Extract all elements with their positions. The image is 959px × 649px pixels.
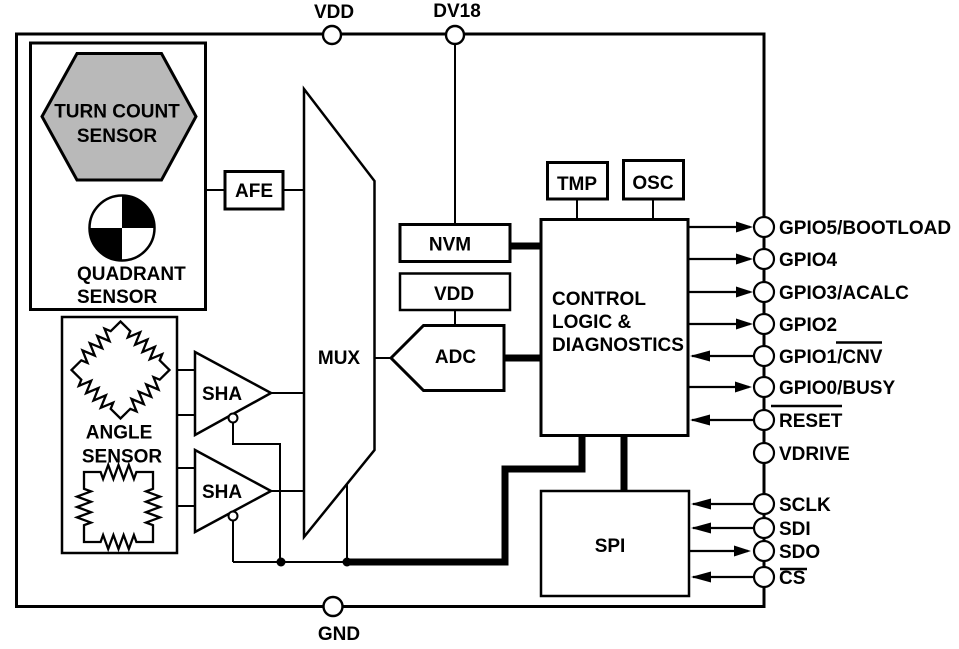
pin GPIO3/ACALC bbox=[754, 282, 774, 302]
svg-text:QUADRANT: QUADRANT bbox=[77, 264, 186, 285]
angle sensor box bbox=[62, 317, 177, 553]
chopper bus horizontal bbox=[233, 561, 347, 563]
SPI box U-SPI bbox=[541, 491, 689, 596]
svg-text:CS: CS bbox=[779, 568, 805, 589]
NVM box bbox=[400, 225, 510, 262]
wire MUX tap to bottom bus bbox=[346, 484, 348, 562]
wire VDD to ADC bbox=[454, 310, 456, 326]
turn count sensor hexagon bbox=[42, 54, 196, 181]
wire DV18 to NVM bbox=[454, 44, 456, 224]
pin SDI bbox=[754, 518, 774, 538]
pin RESET bbox=[754, 410, 774, 430]
ADC converter bbox=[391, 326, 504, 391]
svg-text:GPIO4: GPIO4 bbox=[779, 250, 838, 271]
pin GPIO0/BUSY bbox=[754, 377, 774, 397]
wires angle sensor to SHA1 bbox=[177, 369, 195, 371]
svg-text:TMP: TMP bbox=[557, 174, 597, 195]
wire SHA2 out to MUX bbox=[271, 490, 304, 492]
svg-text:DIAGNOSTICS: DIAGNOSTICS bbox=[552, 335, 684, 356]
wire sensor to AFE bbox=[206, 189, 227, 191]
svg-text:SCLK: SCLK bbox=[779, 495, 831, 516]
svg-text:ADC: ADC bbox=[435, 347, 476, 368]
svg-text:CONTROL: CONTROL bbox=[552, 289, 646, 310]
wire TMP to control bbox=[576, 199, 578, 219]
svg-text:SENSOR: SENSOR bbox=[77, 287, 158, 308]
svg-text:SHA: SHA bbox=[202, 384, 242, 405]
junction dot B bbox=[343, 558, 352, 567]
wire+arrow GPIO0 out bbox=[688, 386, 749, 388]
svg-text:SENSOR: SENSOR bbox=[77, 126, 158, 147]
svg-text:DV18: DV18 bbox=[433, 1, 481, 22]
svg-text:SENSOR: SENSOR bbox=[82, 447, 163, 468]
pin GPIO5/BOOTLOAD bbox=[754, 217, 774, 237]
pin GPIO1/CNV bbox=[754, 346, 774, 366]
svg-text:RESET: RESET bbox=[779, 411, 843, 432]
wires angle sensor to SHA2 bbox=[177, 467, 195, 469]
AFE box bbox=[225, 172, 283, 210]
op-amp SHA2 bbox=[195, 450, 271, 532]
svg-text:ANGLE: ANGLE bbox=[86, 423, 153, 444]
pin VDRIVE bbox=[754, 443, 774, 463]
chopper circle SHA2 bbox=[229, 512, 238, 521]
mux U-MUX bbox=[304, 89, 375, 537]
bus ADC to control (thick) bbox=[504, 355, 541, 362]
pin GND (bottom) bbox=[324, 597, 343, 616]
pin GPIO2 bbox=[754, 314, 774, 334]
svg-text:GPIO5/BOOTLOAD: GPIO5/BOOTLOAD bbox=[779, 218, 951, 239]
chip boundary bbox=[17, 34, 765, 607]
svg-text:GPIO3/ACALC: GPIO3/ACALC bbox=[779, 283, 909, 304]
svg-text:SPI: SPI bbox=[595, 536, 626, 557]
svg-text:GND: GND bbox=[318, 624, 360, 645]
wire OSC to control bbox=[652, 199, 654, 219]
sensor block box bbox=[31, 43, 206, 310]
pin SCLK bbox=[754, 494, 774, 514]
wire+arrow GPIO1 in bbox=[692, 355, 754, 357]
junction dot A bbox=[277, 558, 286, 567]
pin SDO bbox=[754, 541, 774, 561]
svg-text:NVM: NVM bbox=[429, 235, 471, 256]
svg-text:VDD: VDD bbox=[314, 2, 354, 23]
TMP box bbox=[548, 163, 608, 200]
wire+arrow SCLK in bbox=[693, 503, 754, 505]
wire+arrow RESET in bbox=[692, 419, 754, 421]
wire SHA1 out to MUX bbox=[271, 392, 304, 394]
svg-text:VDRIVE: VDRIVE bbox=[779, 444, 850, 465]
svg-text:GPIO2: GPIO2 bbox=[779, 315, 837, 336]
svg-text:SHA: SHA bbox=[202, 482, 242, 503]
svg-text:OSC: OSC bbox=[632, 173, 673, 194]
wire+arrow GPIO5 out bbox=[688, 226, 750, 228]
svg-text:LOGIC &: LOGIC & bbox=[552, 312, 631, 333]
svg-text:VDD: VDD bbox=[434, 284, 474, 305]
svg-text:SDI: SDI bbox=[779, 519, 811, 540]
wire MUX to ADC bbox=[375, 357, 392, 359]
wire+arrow SDO out bbox=[689, 550, 748, 552]
svg-text:AFE: AFE bbox=[235, 181, 273, 202]
quadrant sensor bbox=[90, 196, 155, 261]
bus control to SPI (thick) bbox=[621, 435, 628, 491]
OSC box bbox=[624, 161, 684, 200]
wire+arrow GPIO2 out bbox=[688, 323, 750, 325]
op-amp SHA1 bbox=[195, 352, 271, 435]
svg-text:SDO: SDO bbox=[779, 542, 820, 563]
wire+arrow SDI in bbox=[693, 527, 754, 529]
wire chopper SHA1 to bus bbox=[233, 423, 280, 563]
bus NVM to control (thick) bbox=[510, 243, 541, 250]
svg-text:MUX: MUX bbox=[318, 348, 361, 369]
bus control to bottom rail (thick) bbox=[347, 435, 582, 562]
wire AFE to MUX bbox=[283, 189, 304, 191]
angle bridge (square) bbox=[77, 465, 160, 549]
wire chopper SHA2 to bus bbox=[232, 521, 234, 563]
pin CS bbox=[754, 567, 774, 587]
pin GPIO4 bbox=[754, 249, 774, 269]
angle bridge (diamond) bbox=[72, 322, 170, 419]
svg-text:GPIO1/CNV: GPIO1/CNV bbox=[779, 347, 883, 368]
VDD regulator box bbox=[400, 274, 510, 311]
chopper circle SHA1 bbox=[229, 414, 238, 423]
wire+arrow GPIO4 out bbox=[688, 258, 750, 260]
svg-text:GPIO0/BUSY: GPIO0/BUSY bbox=[779, 378, 895, 399]
control logic box U-CTRL bbox=[541, 220, 688, 436]
svg-text:TURN COUNT: TURN COUNT bbox=[54, 102, 180, 123]
wire+arrow CS in bbox=[693, 576, 754, 578]
wire+arrow GPIO3 out bbox=[688, 291, 750, 293]
